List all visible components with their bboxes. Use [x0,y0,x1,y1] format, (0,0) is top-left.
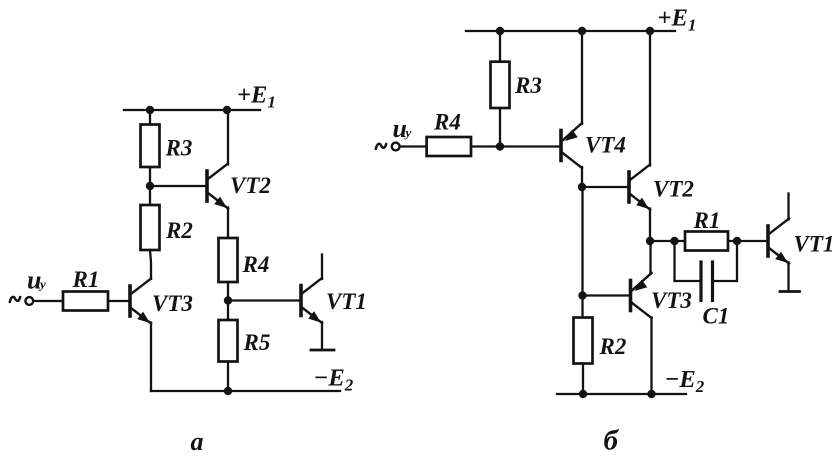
svg-text:VT2: VT2 [653,177,694,202]
svg-text:R2: R2 [599,334,627,359]
svg-text:C1: C1 [703,304,730,329]
svg-text:R3: R3 [165,136,193,161]
svg-text:VT3: VT3 [152,291,193,316]
svg-text:а: а [191,427,204,456]
svg-text:VT3: VT3 [651,288,692,313]
svg-text:R1: R1 [72,267,100,292]
svg-text:R3: R3 [514,73,542,98]
svg-text:VT4: VT4 [585,133,626,158]
svg-text:R2: R2 [165,218,193,243]
svg-text:R4: R4 [433,110,461,135]
svg-text:VT2: VT2 [230,173,271,198]
svg-text:VT1: VT1 [794,232,835,257]
svg-text:VT1: VT1 [326,289,367,314]
svg-text:R4: R4 [242,252,270,277]
svg-text:R1: R1 [693,208,721,233]
svg-text:б: б [604,425,620,457]
svg-text:R5: R5 [243,330,271,355]
